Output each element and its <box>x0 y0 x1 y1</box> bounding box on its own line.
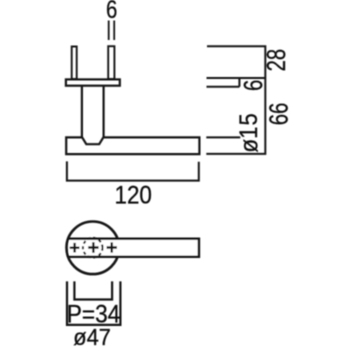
svg-text:ø47: ø47 <box>73 324 111 350</box>
svg-text:120: 120 <box>114 181 151 210</box>
svg-text:66: 66 <box>264 103 293 126</box>
svg-text:15: 15 <box>235 112 263 139</box>
svg-text:ø: ø <box>236 139 264 153</box>
svg-text:6: 6 <box>106 0 117 23</box>
svg-text:6: 6 <box>239 80 268 91</box>
svg-text:28: 28 <box>261 49 290 72</box>
